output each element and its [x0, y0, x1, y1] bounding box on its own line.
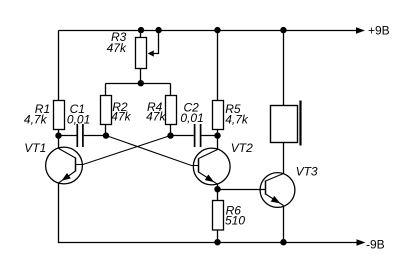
- svg-text:4,7k: 4,7k: [24, 113, 48, 127]
- svg-text:VT3: VT3: [296, 165, 318, 179]
- svg-text:VT2: VT2: [231, 141, 253, 155]
- svg-text:47k: 47k: [107, 41, 127, 55]
- svg-text:47k: 47k: [111, 110, 131, 124]
- svg-text:0,01: 0,01: [67, 113, 90, 127]
- svg-text:0,01: 0,01: [180, 111, 203, 125]
- svg-text:-9В: -9В: [366, 237, 385, 251]
- svg-text:47k: 47k: [146, 110, 166, 124]
- svg-text:4,7k: 4,7k: [225, 113, 249, 127]
- svg-text:510: 510: [225, 214, 245, 228]
- svg-text:+9В: +9В: [368, 24, 390, 38]
- svg-text:VT1: VT1: [24, 141, 46, 155]
